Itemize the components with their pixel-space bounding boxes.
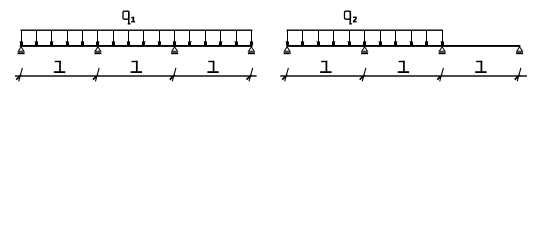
load q1 arrow 4 bbox=[66, 30, 69, 45]
load q2 arrow 6 bbox=[363, 30, 366, 45]
beam 1 dimension tick 2 bbox=[93, 68, 99, 81]
beam 1 pinned support 3 bbox=[171, 47, 178, 54]
beam 2 dimension tick 4 bbox=[515, 68, 521, 81]
load q1 arrow 11 bbox=[173, 30, 176, 45]
beam 2 dimension tick 1 bbox=[282, 68, 288, 81]
beam 2 span length label l (span 2) bbox=[398, 61, 409, 73]
beam 1 bbox=[20, 45, 253, 47]
beam 2 bbox=[286, 45, 520, 47]
beam 1 dimension tick 3 bbox=[170, 68, 176, 81]
load q2 arrow 9 bbox=[410, 30, 414, 45]
load q1 arrow 9 bbox=[142, 30, 146, 45]
beam 2 dimension line bbox=[280, 75, 527, 76]
beam 1 dimension tick 1 bbox=[16, 68, 22, 81]
beam 1 span length label l (span 2) bbox=[131, 61, 142, 73]
load q2 arrow 11 bbox=[441, 30, 445, 45]
load q2 arrow 5 bbox=[348, 30, 352, 45]
beam 2 pinned support 2 bbox=[361, 47, 368, 54]
beam 1 dimension tick 4 bbox=[247, 68, 253, 81]
beam 1 span length label l (span 3) bbox=[207, 61, 218, 73]
load q2 arrow 3 bbox=[317, 30, 321, 45]
load q2 arrow 8 bbox=[394, 30, 397, 45]
load q1 arrow 15 bbox=[234, 30, 238, 45]
beam 2 pinned support 4 (right end) bbox=[516, 47, 523, 54]
load label q2 bbox=[345, 11, 353, 25]
load q1 arrow 2 bbox=[35, 30, 38, 45]
load q1 arrow 6 bbox=[96, 30, 99, 45]
beam 2 dimension tick 2 bbox=[360, 68, 366, 81]
distributed load q2 top line bbox=[287, 30, 443, 31]
beam 2 span length label l (span 3) bbox=[475, 61, 486, 73]
load q2 arrow 1 bbox=[286, 30, 290, 45]
load q2 arrow 7 bbox=[379, 30, 383, 45]
load q1 arrow 14 bbox=[219, 30, 222, 45]
beam 1 span length label l (span 1) bbox=[54, 61, 65, 73]
distributed load q1 top line bbox=[21, 30, 253, 31]
load q1 arrow 1 bbox=[20, 30, 24, 45]
q2 subscript 2 bbox=[353, 17, 357, 23]
load q1 arrow 16 bbox=[250, 30, 253, 45]
load q2 arrow 4 bbox=[332, 30, 335, 45]
load q2 arrow 2 bbox=[301, 30, 304, 45]
load q1 arrow 10 bbox=[158, 30, 161, 45]
load q1 arrow 7 bbox=[112, 30, 115, 45]
load q1 arrow 13 bbox=[204, 30, 207, 45]
beam 1 pinned support 1 (left end) bbox=[18, 47, 25, 54]
load q1 arrow 5 bbox=[81, 30, 84, 45]
load q1 arrow 8 bbox=[127, 30, 130, 45]
beam 2 pinned support 1 (left end) bbox=[284, 47, 291, 54]
load label q1 bbox=[123, 11, 131, 25]
beam 1 pinned support 2 bbox=[94, 47, 101, 54]
beam 1 pinned support 4 (right end) bbox=[248, 47, 255, 54]
q1 subscript 1 bbox=[131, 17, 135, 23]
beam 1 dimension line bbox=[15, 75, 257, 76]
load q2 arrow 10 bbox=[425, 30, 428, 45]
load q1 arrow 3 bbox=[50, 30, 53, 45]
beam 2 span length label l (span 1) bbox=[320, 61, 331, 73]
beam 2 pinned support 3 bbox=[439, 47, 446, 54]
load q1 arrow 12 bbox=[188, 30, 192, 45]
beam 2 dimension tick 3 bbox=[437, 68, 443, 81]
